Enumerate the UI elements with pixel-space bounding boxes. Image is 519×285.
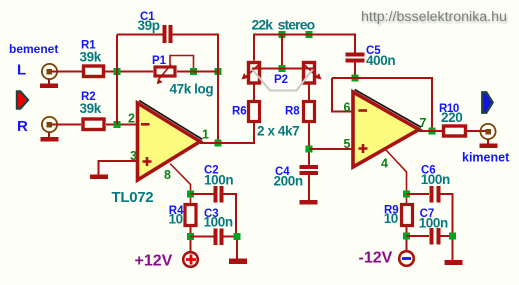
svg-text:TL072: TL072 <box>112 189 154 206</box>
junction (C5/feedback) <box>352 75 359 82</box>
svg-text:bemenet: bemenet <box>9 42 58 56</box>
wire U1 output <box>200 123 254 143</box>
svg-text:kimenet: kimenet <box>462 151 510 165</box>
svg-text:400n: 400n <box>366 53 395 68</box>
svg-text:8: 8 <box>164 168 171 182</box>
wire C3 right <box>224 237 238 259</box>
resistor R4 <box>185 205 196 226</box>
svg-text:R: R <box>17 118 28 135</box>
junction (rail/P2R) <box>306 31 313 38</box>
svg-text:10: 10 <box>169 212 183 227</box>
potentiometer P1 <box>155 65 175 85</box>
junction (wiper) <box>279 65 286 72</box>
svg-text:39k: 39k <box>80 50 102 65</box>
svg-text:100n: 100n <box>204 173 233 188</box>
svg-text:39k: 39k <box>80 101 102 116</box>
svg-text:+12V: +12V <box>135 253 173 270</box>
svg-text:R8: R8 <box>285 106 300 118</box>
wire P2L bottom to R6 <box>253 83 255 100</box>
svg-text:100n: 100n <box>421 172 450 187</box>
svg-text:http://bsselektronika.hu: http://bsselektronika.hu <box>361 9 507 25</box>
connector J-L <box>42 64 57 79</box>
wire C4 bottom <box>308 175 310 200</box>
svg-text:5: 5 <box>344 137 351 151</box>
wire C5 top <box>354 35 356 54</box>
wire pin3 to ground <box>99 161 138 175</box>
svg-text:39p: 39p <box>138 18 160 33</box>
junction (C2/C3 right) <box>234 233 241 240</box>
capacitor C2 <box>214 186 224 203</box>
junction (pin4/R9/C6) <box>403 191 410 198</box>
svg-text:P2: P2 <box>274 74 288 86</box>
junction (R1/feedback) <box>114 68 121 75</box>
svg-text:100n: 100n <box>204 215 233 230</box>
resistor R8 <box>304 102 315 122</box>
junction (R8/pin5/C4) <box>306 146 313 153</box>
resistor R10 <box>444 126 466 136</box>
capacitor C3 <box>214 229 224 246</box>
ground (C7 right) <box>445 260 463 265</box>
wire U2 output <box>419 130 442 132</box>
input arrow <box>17 91 28 108</box>
op-amp U2 <box>353 90 421 168</box>
junction (R9/C7) <box>403 233 410 240</box>
wire C2 right down <box>224 194 237 237</box>
svg-text:7: 7 <box>420 116 427 130</box>
wire L-connector to R1 <box>51 71 82 73</box>
capacitor C4 <box>300 165 319 175</box>
resistor R2 <box>83 119 104 130</box>
wire pin 8 power <box>170 164 191 204</box>
wire C5 bottom / U2 feedback <box>332 63 432 132</box>
wire C1 left <box>117 34 163 36</box>
junction (C6/C7 right) <box>449 233 456 240</box>
connector J-out <box>480 124 495 139</box>
wire R6 bottom to output node <box>253 122 255 144</box>
svg-text:220: 220 <box>441 110 462 125</box>
wire R10 to connector <box>466 130 486 132</box>
wire C6 right <box>441 194 453 236</box>
wire P2R bottom to R8 <box>308 83 310 100</box>
wire wiper vertical <box>281 35 283 69</box>
wire R-connector to R2 <box>51 124 81 126</box>
resistor R1 <box>84 66 104 77</box>
capacitor C5 <box>346 53 365 63</box>
capacitor C6 <box>430 186 441 203</box>
wire C3 left <box>191 236 214 238</box>
op-amp U1 <box>138 101 203 181</box>
svg-text:6: 6 <box>344 101 351 115</box>
+12V supply symbol <box>183 252 198 267</box>
svg-text:P1: P1 <box>152 55 167 67</box>
ground (L connector) <box>40 79 58 88</box>
junction (U1 output) <box>215 140 222 147</box>
svg-text:-12V: -12V <box>359 250 393 267</box>
capacitor C1 <box>163 25 173 43</box>
junction (rail/wiper) <box>279 31 286 38</box>
-12V supply symbol <box>399 251 414 266</box>
junction (U2 output) <box>429 128 436 135</box>
resistor R9 <box>402 205 413 226</box>
svg-text:10: 10 <box>384 211 398 226</box>
wire P2 top rail <box>254 35 355 61</box>
wire R4 bottom <box>190 226 192 252</box>
svg-text:R6: R6 <box>232 106 247 118</box>
svg-text:22k stereo: 22k stereo <box>252 17 315 33</box>
wire P1 wiper link <box>170 56 194 72</box>
svg-text:200n: 200n <box>274 174 303 189</box>
output arrow <box>482 92 492 112</box>
svg-text:1: 1 <box>202 128 209 142</box>
junction (R4/C3) <box>187 233 194 240</box>
junction (feedback top) <box>215 68 222 75</box>
P2 gang link (gray) <box>252 69 313 91</box>
wire wiper horizontal <box>252 68 313 70</box>
capacitor C7 <box>430 228 441 245</box>
junction (pin8/R4/C2) <box>187 191 194 198</box>
svg-text:4: 4 <box>381 157 388 171</box>
svg-text:2: 2 <box>128 112 135 126</box>
wire pin5 <box>309 148 353 150</box>
wire P1 right to feedback <box>177 71 218 73</box>
wire C1 right <box>173 35 219 144</box>
ground (pin3) <box>90 175 108 180</box>
svg-text:100n: 100n <box>419 216 448 231</box>
connector J-R <box>42 117 57 132</box>
potentiometer P2 left <box>242 63 261 84</box>
wire C7 right / ground <box>441 236 453 260</box>
wire C6 left <box>407 193 430 195</box>
wire R9 bottom <box>406 226 408 251</box>
junction (P1 right) <box>190 68 197 75</box>
ground (C3 right) <box>229 259 247 265</box>
ground (R connector) <box>41 132 59 142</box>
ground (output connector) <box>480 139 498 148</box>
resistor R6 <box>249 102 260 122</box>
wire vertical node x117 <box>116 35 118 125</box>
wire R8 bottom <box>308 122 310 166</box>
svg-text:47k log: 47k log <box>170 82 214 97</box>
junction (R2/pin2) <box>114 121 121 128</box>
wire R2 to pin2 <box>106 124 138 126</box>
wire C7 left <box>407 235 430 237</box>
ground (C4) <box>300 200 318 205</box>
wire C2 left <box>191 193 214 195</box>
svg-text:2 x 4k7: 2 x 4k7 <box>257 124 299 139</box>
wire pin 4 power <box>386 150 407 203</box>
wire R1 to P1 <box>105 71 153 73</box>
potentiometer P2 right <box>303 63 322 84</box>
svg-text:L: L <box>17 62 26 79</box>
